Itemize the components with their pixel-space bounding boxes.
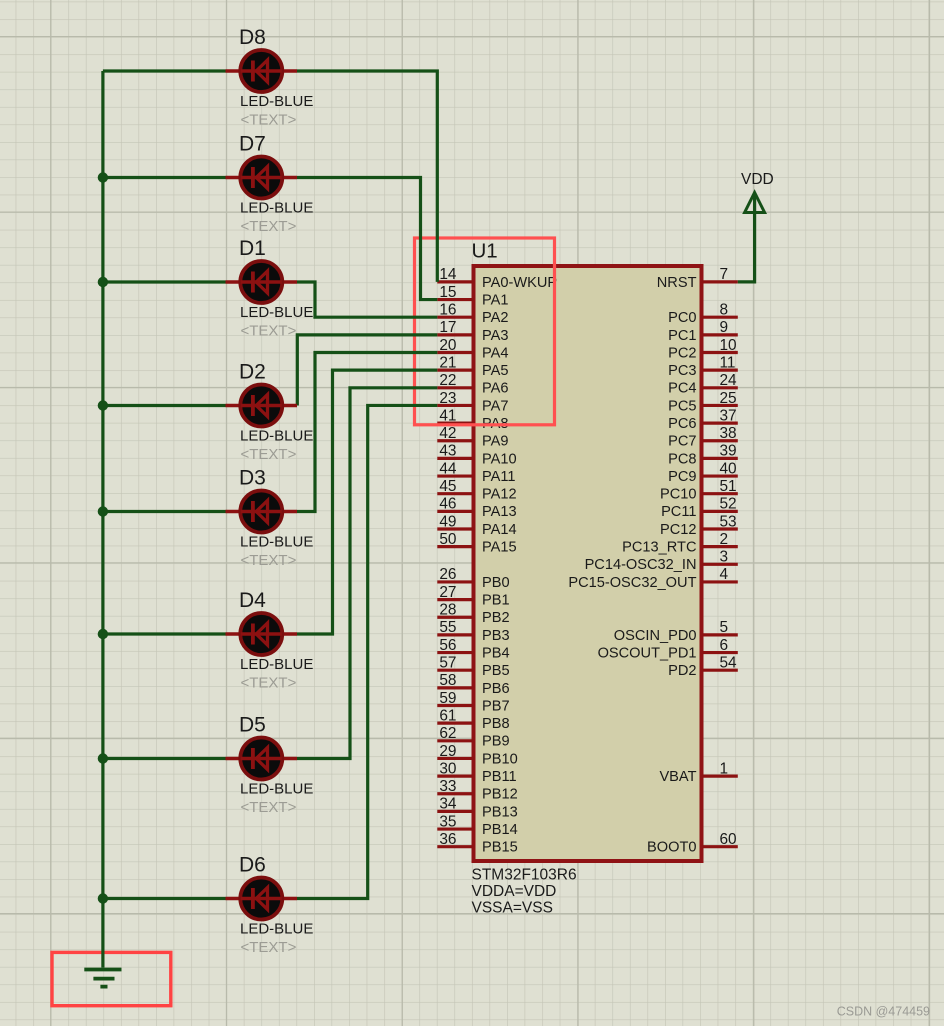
selection box around U1 left pin area (415, 238, 555, 425)
svg-text:<TEXT>: <TEXT> (241, 112, 297, 129)
svg-text:PC2: PC2 (668, 345, 696, 361)
LED D2 (LED-BLUE) (226, 385, 298, 427)
svg-text:PB0: PB0 (482, 575, 510, 591)
svg-text:PA6: PA6 (482, 381, 509, 397)
svg-text:52: 52 (720, 496, 737, 513)
svg-text:LED-BLUE: LED-BLUE (240, 304, 313, 321)
svg-text:51: 51 (720, 478, 737, 495)
svg-text:D4: D4 (239, 589, 266, 612)
svg-text:33: 33 (439, 778, 456, 795)
svg-text:44: 44 (439, 460, 457, 477)
svg-text:PB1: PB1 (482, 593, 510, 609)
svg-text:60: 60 (720, 831, 737, 848)
svg-text:VDDA=VDD: VDDA=VDD (472, 883, 557, 900)
svg-text:PA5: PA5 (482, 363, 509, 379)
svg-text:30: 30 (439, 760, 456, 777)
svg-text:PD2: PD2 (668, 663, 696, 679)
svg-text:PA9: PA9 (482, 434, 509, 450)
svg-text:53: 53 (720, 513, 737, 530)
svg-text:LED-BLUE: LED-BLUE (240, 781, 313, 798)
svg-text:22: 22 (439, 372, 456, 389)
svg-text:PA11: PA11 (482, 469, 516, 485)
svg-text:16: 16 (439, 302, 456, 319)
svg-text:PC1: PC1 (668, 328, 696, 344)
svg-text:<TEXT>: <TEXT> (241, 799, 297, 816)
svg-text:PA2: PA2 (482, 310, 509, 326)
svg-text:LED-BLUE: LED-BLUE (240, 200, 313, 217)
svg-text:49: 49 (439, 513, 456, 530)
svg-text:PC15-OSC32_OUT: PC15-OSC32_OUT (568, 575, 696, 591)
svg-text:OSCIN_PD0: OSCIN_PD0 (614, 628, 697, 644)
svg-text:50: 50 (439, 531, 456, 548)
svg-text:PB2: PB2 (482, 610, 510, 626)
U1 left pin stubs (437, 282, 738, 847)
wire D2 to PA3 (297, 335, 437, 406)
LED D8 (LED-BLUE) (226, 50, 298, 92)
svg-text:LED-BLUE: LED-BLUE (240, 534, 313, 551)
svg-text:61: 61 (439, 707, 456, 724)
svg-text:PC4: PC4 (668, 381, 696, 397)
U1 pin numbers and names (439, 266, 737, 848)
svg-text:<TEXT>: <TEXT> (241, 675, 297, 692)
wire NRST to VDD (738, 195, 755, 282)
svg-text:2: 2 (720, 531, 729, 548)
svg-text:NRST: NRST (657, 275, 697, 291)
svg-text:PA14: PA14 (482, 522, 517, 538)
svg-text:VSSA=VSS: VSSA=VSS (472, 900, 553, 917)
svg-text:PB5: PB5 (482, 663, 510, 679)
junction dots on bus (98, 172, 108, 182)
svg-text:PB11: PB11 (482, 769, 517, 785)
wire D3 to PA4 (297, 353, 437, 512)
svg-text:38: 38 (720, 425, 737, 442)
svg-text:24: 24 (720, 372, 738, 389)
svg-text:PB8: PB8 (482, 716, 510, 732)
svg-text:D7: D7 (239, 133, 266, 156)
svg-text:15: 15 (439, 284, 456, 301)
svg-text:PA0-WKUP: PA0-WKUP (482, 275, 557, 291)
svg-text:PC6: PC6 (668, 416, 696, 432)
svg-text:PB14: PB14 (482, 822, 518, 838)
svg-text:D5: D5 (239, 714, 266, 737)
svg-text:62: 62 (439, 725, 456, 742)
svg-text:14: 14 (439, 266, 457, 283)
svg-text:7: 7 (720, 266, 729, 283)
svg-text:10: 10 (720, 337, 737, 354)
svg-text:PB3: PB3 (482, 628, 510, 644)
svg-text:21: 21 (439, 354, 456, 371)
svg-text:20: 20 (439, 337, 456, 354)
svg-text:PC12: PC12 (660, 522, 697, 538)
svg-text:PC7: PC7 (668, 434, 696, 450)
LED D3 (LED-BLUE) (226, 491, 298, 533)
svg-text:CSDN @474459: CSDN @474459 (837, 1005, 930, 1019)
svg-text:55: 55 (439, 619, 456, 636)
svg-text:<TEXT>: <TEXT> (241, 323, 297, 340)
svg-text:PB12: PB12 (482, 787, 518, 803)
svg-text:17: 17 (439, 319, 456, 336)
svg-text:OSCOUT_PD1: OSCOUT_PD1 (598, 645, 697, 661)
svg-text:29: 29 (439, 743, 456, 760)
LED D4 (LED-BLUE) (226, 613, 298, 655)
svg-text:8: 8 (720, 302, 729, 319)
svg-text:36: 36 (439, 831, 456, 848)
svg-text:PA13: PA13 (482, 504, 517, 520)
svg-text:45: 45 (439, 478, 456, 495)
svg-text:PC14-OSC32_IN: PC14-OSC32_IN (585, 557, 697, 573)
svg-text:D3: D3 (239, 467, 266, 490)
wire: ground bus vertical (101, 71, 104, 968)
svg-text:58: 58 (439, 672, 456, 689)
selection box around ground symbol (52, 952, 171, 1005)
svg-text:37: 37 (720, 407, 737, 424)
svg-text:PB7: PB7 (482, 698, 510, 714)
svg-text:PA3: PA3 (482, 328, 509, 344)
svg-text:PC8: PC8 (668, 451, 696, 467)
wire D1 to PA2 (297, 282, 437, 317)
wire D7 to PA1 (297, 178, 437, 300)
svg-text:42: 42 (439, 425, 456, 442)
svg-text:PA1: PA1 (482, 292, 509, 308)
svg-text:35: 35 (439, 813, 456, 830)
svg-text:PC3: PC3 (668, 363, 696, 379)
svg-text:PA10: PA10 (482, 451, 517, 467)
svg-text:1: 1 (720, 760, 729, 777)
svg-text:PC13_RTC: PC13_RTC (622, 540, 696, 556)
svg-text:57: 57 (439, 655, 456, 672)
svg-text:D8: D8 (239, 26, 266, 49)
svg-text:56: 56 (439, 637, 456, 654)
svg-text:LED-BLUE: LED-BLUE (240, 656, 313, 673)
svg-text:PB9: PB9 (482, 734, 510, 750)
svg-text:4: 4 (720, 566, 729, 583)
svg-text:LED-BLUE: LED-BLUE (240, 921, 313, 938)
svg-text:<TEXT>: <TEXT> (241, 552, 297, 569)
wire D4 to PA5 (297, 370, 437, 634)
svg-text:D2: D2 (239, 361, 266, 384)
svg-text:40: 40 (720, 460, 737, 477)
svg-text:59: 59 (439, 690, 456, 707)
svg-text:6: 6 (720, 637, 729, 654)
svg-text:PA7: PA7 (482, 398, 509, 414)
svg-text:<TEXT>: <TEXT> (241, 939, 297, 956)
svg-text:<TEXT>: <TEXT> (241, 446, 297, 463)
svg-text:34: 34 (439, 796, 457, 813)
svg-text:43: 43 (439, 443, 456, 460)
ground symbol (84, 970, 121, 987)
wire D8 to PA0 (297, 71, 437, 282)
svg-text:LED-BLUE: LED-BLUE (240, 428, 313, 445)
svg-text:PB6: PB6 (482, 681, 510, 697)
svg-text:PB4: PB4 (482, 645, 510, 661)
svg-text:39: 39 (720, 443, 737, 460)
svg-text:VBAT: VBAT (659, 769, 696, 785)
svg-text:<TEXT>: <TEXT> (241, 218, 297, 235)
svg-text:25: 25 (720, 390, 737, 407)
svg-text:U1: U1 (472, 240, 498, 263)
svg-text:5: 5 (720, 619, 729, 636)
LED D1 (LED-BLUE) (226, 261, 298, 303)
svg-text:PC5: PC5 (668, 398, 696, 414)
svg-text:23: 23 (439, 390, 456, 407)
svg-text:PC10: PC10 (660, 487, 697, 503)
svg-text:BOOT0: BOOT0 (647, 840, 696, 856)
svg-text:PA4: PA4 (482, 345, 509, 361)
svg-text:9: 9 (720, 319, 729, 336)
svg-text:46: 46 (439, 496, 456, 513)
svg-text:41: 41 (439, 407, 456, 424)
svg-text:PC0: PC0 (668, 310, 696, 326)
svg-text:PA12: PA12 (482, 487, 517, 503)
LED D6 (LED-BLUE) (226, 878, 298, 920)
wires: LED anode feeds from bus (103, 71, 226, 899)
svg-text:D6: D6 (239, 854, 266, 877)
svg-text:54: 54 (720, 655, 738, 672)
svg-text:LED-BLUE: LED-BLUE (240, 93, 313, 110)
LED D7 (LED-BLUE) (226, 157, 298, 199)
wire D5 to PA6 (297, 388, 437, 759)
IC U1 STM32F103R6 body (474, 266, 702, 861)
svg-text:28: 28 (439, 602, 456, 619)
svg-text:D1: D1 (239, 237, 266, 260)
LED D5 (LED-BLUE) (226, 738, 298, 780)
svg-text:PB15: PB15 (482, 840, 518, 856)
svg-text:PC11: PC11 (661, 504, 696, 520)
svg-text:STM32F103R6: STM32F103R6 (472, 867, 577, 884)
svg-text:3: 3 (720, 549, 729, 566)
svg-text:26: 26 (439, 566, 456, 583)
svg-text:PC9: PC9 (668, 469, 696, 485)
svg-text:27: 27 (439, 584, 456, 601)
svg-text:PB13: PB13 (482, 804, 518, 820)
svg-text:PA15: PA15 (482, 540, 517, 556)
wire D6 to PA7 (297, 405, 437, 898)
svg-text:PB10: PB10 (482, 751, 518, 767)
svg-text:VDD: VDD (741, 171, 774, 188)
power symbol VDD (745, 193, 765, 213)
svg-text:11: 11 (720, 354, 736, 371)
